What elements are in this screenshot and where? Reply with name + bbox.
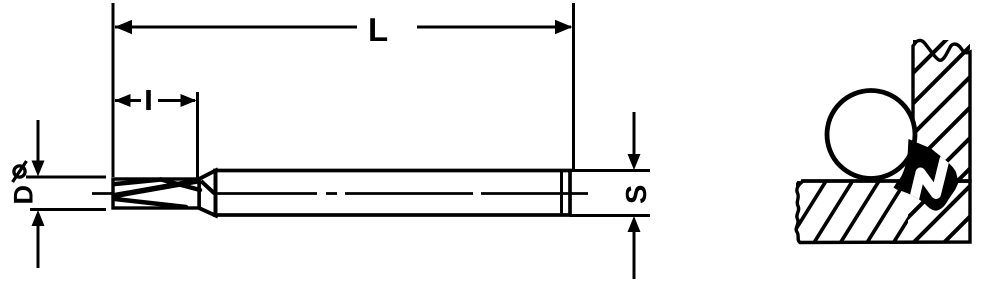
vertical plate hatching 45deg [806,36,1000,185]
bottom plate top edge redrawn [801,179,970,182]
shank diameter S extension line bottom [570,214,650,217]
cone slant overshoot top [211,169,218,173]
application detail: bottom plate [796,181,970,243]
svg-text:D: D [9,185,39,205]
dimension L arrowhead right [555,20,573,34]
cutter head [113,179,199,208]
dimension S arrow bottom [633,231,636,279]
cone slant overshoot bottom [211,213,218,216]
svg-text:S: S [621,185,653,204]
dimension l line left segment with arrow [115,99,141,102]
dimension L line right segment [417,26,571,29]
cone flute line [201,181,215,194]
dimension S arrow top [633,112,636,156]
diameter D extension line bottom [30,208,106,211]
diameter D extension line top [26,176,106,179]
bottom right hatching 45deg [881,177,1000,245]
dimension L line left segment [115,26,357,29]
dimension L extension line right [572,3,575,169]
shank end chamfer line [560,172,563,214]
label diameter sign [14,166,25,177]
taper cone between head and shank [199,171,216,216]
dimension l line right segment [158,99,195,102]
dimension L extension line left [112,3,115,177]
centerline of tool axis [92,192,588,195]
round bar (circle) [827,91,915,179]
bottom plate hatching 58deg [761,181,932,242]
dimension l arrowhead right [181,94,197,107]
shank diameter S extension line top [570,169,650,172]
cone end vertical line [214,170,218,217]
cutter silhouette in weld (rotated tool) [914,160,945,202]
shank body [215,171,570,216]
dimension l extension line right [196,92,199,179]
dimension L arrowhead left [115,20,133,34]
diameter D arrow bottom [37,224,40,268]
application detail: vertical plate [913,40,970,181]
label l [146,90,151,110]
head flute lines [115,180,200,208]
diameter D arrow top [37,120,40,163]
svg-text:L: L [368,11,388,48]
dimension l arrowhead left [115,94,131,107]
